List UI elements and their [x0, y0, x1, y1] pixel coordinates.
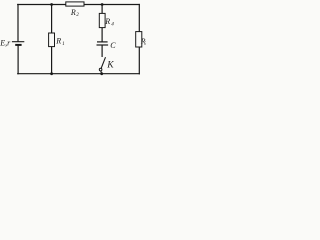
wire left lower (battery bottom lead) — [17, 45, 19, 74]
capacitor C top plate — [97, 41, 108, 43]
wire branch middle (R4 and capacitor top leads) — [101, 5, 103, 42]
node junction bottom switch — [100, 72, 103, 75]
wire capacitor bottom lead (switch fixed contact) — [101, 45, 103, 57]
switch K blade — [101, 57, 105, 68]
switch K bottom lead — [100, 71, 103, 74]
svg-text:R: R — [104, 17, 110, 26]
node junction top R4 tap — [101, 3, 104, 6]
battery E,r long plate — [12, 41, 24, 43]
battery E,r short plate — [15, 44, 21, 46]
svg-text:3: 3 — [144, 42, 146, 47]
wire bottom — [17, 73, 140, 75]
resistor R1 — [49, 33, 55, 47]
svg-text:1: 1 — [62, 41, 65, 47]
resistor R2 — [66, 2, 84, 6]
svg-text:K: K — [106, 60, 114, 70]
wire left upper (battery top lead) — [17, 4, 19, 42]
svg-text:C: C — [110, 41, 116, 50]
svg-text:R: R — [55, 37, 61, 46]
svg-text:R: R — [70, 8, 76, 17]
svg-text:4: 4 — [111, 20, 114, 27]
wire branch R1 — [51, 5, 53, 74]
wire right — [138, 4, 140, 75]
capacitor C bottom plate — [97, 44, 109, 46]
switch K hinge circle — [99, 68, 102, 71]
resistor R4 — [99, 13, 105, 27]
svg-text:E,r: E,r — [0, 39, 11, 48]
svg-text:2: 2 — [76, 12, 79, 18]
node junction bottom R1 — [50, 72, 53, 75]
wire top — [17, 4, 140, 6]
node junction top R1 tap — [50, 3, 53, 6]
resistor R3 — [136, 32, 142, 47]
